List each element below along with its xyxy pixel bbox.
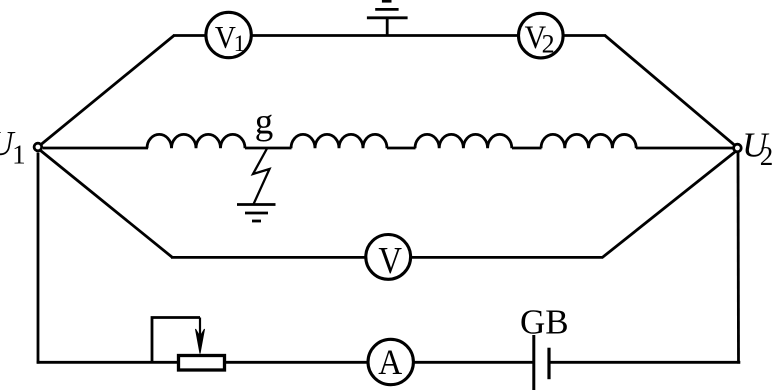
wire: top branch left segment to V1 (173, 34, 205, 37)
inductor coil section 2 (291, 134, 387, 148)
svg-text:g: g (255, 101, 273, 142)
ground symbol below g (237, 205, 276, 222)
svg-text:GB: GB (520, 303, 569, 342)
wire: diagonal U1 down to V branch (41, 151, 173, 258)
rheostat R (slide resistor box) (179, 356, 225, 371)
wire: bottom branch right segment (549, 361, 740, 364)
voltmeter V1 (206, 12, 251, 57)
voltmeter V (366, 235, 411, 282)
wiper connection wire of rheostat (152, 318, 200, 364)
antenna earth symbol on top wire (367, 1, 408, 35)
node U2 (734, 144, 742, 152)
wire: V branch right segment (410, 256, 603, 259)
wire: gap between coil 3 and 4 (512, 147, 542, 150)
voltmeter V2 (519, 13, 564, 58)
wire: diagonal U1 to top branch (41, 36, 174, 145)
wire: top branch right segment (564, 34, 606, 37)
wire: bottom branch left segment (37, 361, 178, 364)
inductor coil section 4 (541, 134, 636, 148)
inductor coil section 3 (415, 134, 512, 148)
svg-text:1: 1 (234, 31, 246, 57)
wire: left vertical from U1 to bottom branch (37, 153, 40, 364)
wiper arrow onto rheostat (196, 318, 205, 354)
ammeter A (368, 339, 413, 384)
inductor coil section 1 (147, 134, 245, 148)
svg-text:1: 1 (12, 140, 26, 170)
wire: top branch middle segment V1 to V2 (251, 34, 517, 37)
svg-text:2: 2 (542, 30, 555, 59)
svg-text:A: A (378, 342, 402, 382)
wire: right vertical from bottom branch up to U2 (737, 153, 740, 364)
battery GB (534, 335, 549, 390)
lightning arrow to ground at g (253, 149, 270, 205)
svg-text:2: 2 (760, 141, 774, 171)
wire: middle branch right of coil (636, 147, 733, 150)
label U2 (742, 126, 773, 172)
wire: coil gap at point g (245, 147, 292, 150)
svg-text:V: V (378, 240, 402, 282)
wire: middle branch left of coil (43, 147, 148, 150)
node U1 (34, 143, 42, 151)
wire: gap between coil 2 and 3 (387, 147, 416, 150)
wire: V branch left segment (171, 256, 367, 259)
wire: diagonal top branch to U2 (605, 36, 735, 146)
wire: bottom branch between rheostat and ammeter (225, 361, 368, 364)
wire: bottom branch between ammeter and battery (414, 361, 534, 364)
wire: diagonal V branch up to U2 (602, 152, 736, 258)
label U1 (0, 124, 26, 170)
